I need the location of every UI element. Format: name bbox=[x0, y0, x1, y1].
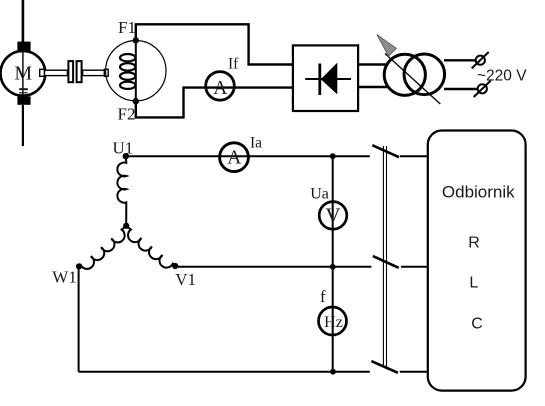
ammeter If bbox=[206, 72, 235, 101]
wire F2 to ammeter If bbox=[136, 88, 293, 118]
junction F1 bbox=[133, 37, 139, 43]
wire motor supply top bbox=[22, 0, 25, 42]
diode triangle bbox=[321, 63, 338, 95]
svg-text:C: C bbox=[471, 315, 483, 332]
ammeter Ia bbox=[220, 143, 249, 172]
wire row1 to load bbox=[400, 155, 429, 157]
variac arrowhead bbox=[377, 35, 397, 57]
coupling bbox=[68, 61, 73, 82]
svg-text:F1: F1 bbox=[118, 18, 136, 37]
switch S2 bbox=[373, 256, 399, 268]
wire row3 to load bbox=[400, 371, 429, 373]
wire through motor bbox=[22, 51, 24, 97]
svg-text:V1: V1 bbox=[175, 270, 196, 289]
switch S3 bbox=[371, 361, 398, 373]
winding U bbox=[117, 156, 126, 226]
terminal bottom bbox=[478, 84, 487, 93]
brush top bbox=[17, 42, 30, 52]
wire row3 bbox=[79, 371, 370, 373]
wire W1 down bbox=[78, 266, 80, 371]
field coil bbox=[120, 54, 135, 61]
switch S1 bbox=[372, 145, 399, 157]
wire rectifier to variac top bbox=[358, 63, 387, 65]
svg-text:Ia: Ia bbox=[250, 135, 262, 152]
variac circle left bbox=[384, 54, 425, 95]
winding V bbox=[121, 226, 175, 272]
winding W bbox=[79, 226, 132, 273]
load box Odbiornik bbox=[428, 131, 526, 391]
wire motor supply bottom bbox=[22, 105, 24, 146]
rectifier box bbox=[293, 45, 358, 111]
junction V1 bbox=[172, 263, 178, 269]
wire variac to terminal top bbox=[444, 59, 476, 61]
svg-text:~220 V: ~220 V bbox=[477, 67, 527, 84]
variac circle right bbox=[404, 54, 445, 95]
generator circle bbox=[106, 40, 166, 100]
wire F1 to rectifier bbox=[136, 24, 293, 64]
wire row2 bbox=[175, 266, 371, 268]
junction row2 bus bbox=[330, 264, 336, 270]
panel double lines bbox=[382, 146, 384, 367]
junction F2 bbox=[133, 98, 139, 104]
svg-text:If: If bbox=[228, 56, 239, 73]
shaft left bbox=[45, 70, 68, 75]
frequency meter bbox=[319, 307, 347, 335]
wire row2 to load bbox=[401, 266, 429, 268]
wire row1 bbox=[126, 155, 370, 157]
field winding line bbox=[135, 40, 137, 101]
junction row1 bus bbox=[330, 153, 336, 159]
svg-text:W1: W1 bbox=[52, 267, 77, 286]
svg-text:f: f bbox=[320, 287, 326, 306]
diode line bbox=[305, 78, 351, 80]
voltmeter Ua bbox=[319, 202, 347, 230]
wire rectifier to variac bottom bbox=[358, 86, 387, 88]
junction U1 bbox=[123, 153, 129, 159]
center node bbox=[123, 223, 129, 229]
svg-text:R: R bbox=[468, 234, 480, 251]
svg-text:F2: F2 bbox=[118, 105, 136, 124]
shaft right cap bbox=[104, 69, 108, 76]
svg-text:V: V bbox=[325, 204, 340, 228]
svg-text:Odbiornik: Odbiornik bbox=[442, 182, 515, 201]
DC mark bbox=[19, 88, 28, 90]
meter bus wire bbox=[332, 156, 334, 372]
junction row3 bus bbox=[330, 369, 336, 375]
shaft right bbox=[83, 70, 105, 75]
svg-text:Ua: Ua bbox=[310, 186, 329, 203]
svg-text:Hz: Hz bbox=[324, 314, 343, 331]
brush bottom bbox=[17, 96, 30, 104]
wire variac to terminal bottom bbox=[444, 88, 478, 90]
svg-text:A: A bbox=[227, 147, 241, 168]
terminal top bbox=[476, 56, 485, 65]
svg-text:L: L bbox=[469, 274, 478, 291]
svg-text:M: M bbox=[14, 62, 32, 84]
svg-text:A: A bbox=[213, 78, 227, 99]
shaft left cap bbox=[40, 69, 45, 76]
svg-text:U1: U1 bbox=[113, 139, 134, 158]
variac arrow line bbox=[385, 54, 440, 105]
junction W1 bbox=[76, 263, 82, 269]
diode cathode bar bbox=[318, 64, 321, 96]
motor M circle bbox=[1, 51, 46, 96]
